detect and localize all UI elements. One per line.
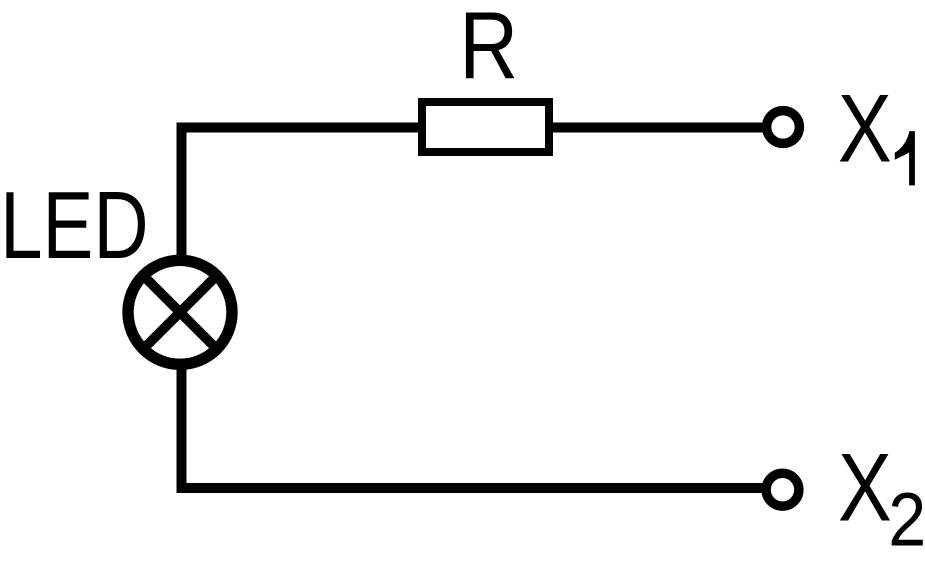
lamp LED [128,260,232,364]
svg-text:X: X [838,73,892,182]
wire top-left corner to resistor [182,128,419,263]
svg-text:R: R [459,0,518,99]
svg-text:LED: LED [0,172,148,279]
svg-text:2: 2 [888,478,925,562]
lamp cross [141,273,219,351]
svg-text:X: X [838,433,892,542]
resistor R [422,102,549,152]
wire lamp to bottom corner to terminal X2 [182,363,765,488]
terminal X1 [767,111,800,144]
wire resistor to terminal X1 [553,123,764,133]
label X1 subscript 1 [895,131,910,160]
terminal X2 [766,473,799,506]
